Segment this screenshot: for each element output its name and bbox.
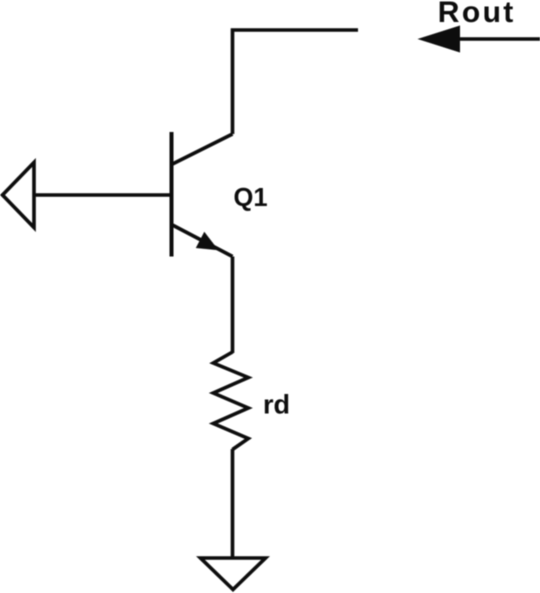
transistor Q1	[172, 132, 233, 257]
emitter stroke	[172, 225, 233, 257]
emitter arrowhead	[196, 232, 219, 250]
wire: resistor to ground	[231, 449, 235, 558]
node Rout output arrow	[418, 26, 540, 53]
svg-text:rd: rd	[263, 390, 290, 420]
ground	[201, 558, 266, 590]
resistor rd	[213, 352, 248, 450]
base bar	[170, 132, 174, 257]
wire: emitter to resistor	[231, 257, 235, 354]
collector stroke	[172, 134, 233, 165]
svg-text:Q1: Q1	[234, 184, 268, 212]
svg-text:Rout: Rout	[438, 0, 516, 29]
wire: base	[34, 193, 172, 197]
input terminal arrow (base)	[3, 163, 35, 228]
wire: collector to top output rail	[233, 30, 359, 134]
